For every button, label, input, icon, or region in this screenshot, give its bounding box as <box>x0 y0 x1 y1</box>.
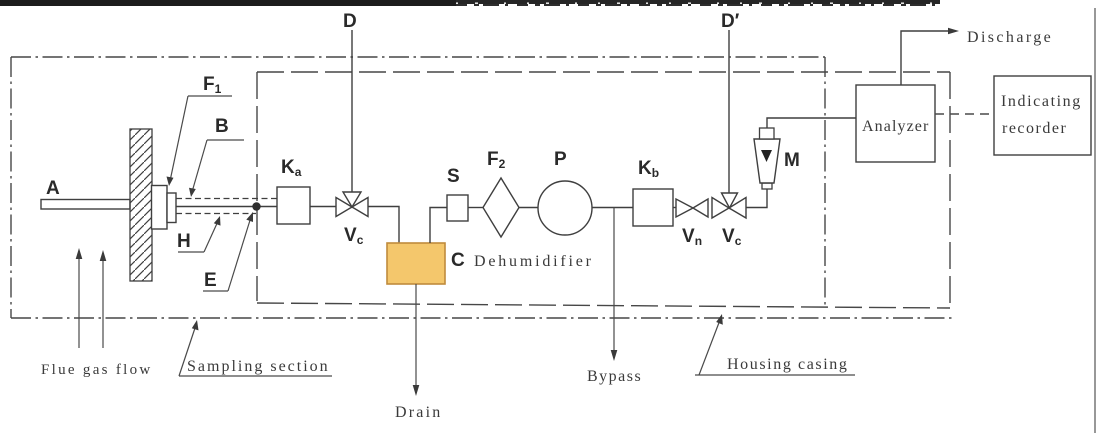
svg-text:E: E <box>204 270 217 291</box>
scan artifact: page right edge line <box>1094 8 1096 433</box>
valve Vc (3-way with actuator) <box>336 192 368 217</box>
svg-text:Analyzer: Analyzer <box>862 118 929 135</box>
wire Ka to valve Vc <box>310 206 336 208</box>
flange F1 <box>152 186 168 230</box>
svg-text:Housing casing: Housing casing <box>727 356 849 373</box>
analyzer box <box>856 85 935 162</box>
bypass line with arrow <box>613 208 615 354</box>
svg-text:Sampling section: Sampling section <box>187 358 330 375</box>
dehumidifier C (orange box) <box>387 243 445 284</box>
svg-text:Discharge: Discharge <box>967 29 1053 46</box>
label F1 with leader <box>167 74 233 186</box>
svg-text:D′: D′ <box>721 11 740 32</box>
node E (junction dot) <box>252 202 260 210</box>
discharge line with arrow <box>901 31 951 85</box>
indicating recorder box <box>994 76 1091 155</box>
svg-text:C: C <box>451 250 465 271</box>
svg-text:B: B <box>215 116 229 137</box>
wire valve Vc to dehumidifier C <box>368 207 399 244</box>
label B with leader <box>189 116 244 197</box>
label: Sampling section with leader arrow <box>179 320 332 376</box>
line to D <box>351 30 353 192</box>
label H with leader <box>177 216 221 252</box>
svg-text:Drain: Drain <box>395 404 442 421</box>
pump P (circle) <box>538 181 592 235</box>
svg-text:Bypass: Bypass <box>587 368 642 385</box>
outer boundary (dash-dot): top <box>11 56 825 58</box>
svg-text:S: S <box>447 166 460 187</box>
wire P to Kb with bypass tee <box>592 207 633 209</box>
housing casing: bottom <box>257 303 950 308</box>
valve Vn <box>676 199 708 217</box>
filter F2 (diamond) <box>483 178 519 237</box>
dashed signal line analyzer to recorder <box>935 113 994 115</box>
svg-text:A: A <box>46 178 60 199</box>
wire Kb to Vn <box>673 207 677 209</box>
duct wall (hatched) <box>130 129 152 281</box>
label Housing casing with leader arrow <box>695 314 855 375</box>
probe A tube <box>41 200 130 210</box>
svg-text:H: H <box>177 231 191 252</box>
wire F2 to P <box>519 207 538 209</box>
flow meter M (rotameter) <box>754 128 780 189</box>
line to D' <box>728 30 730 193</box>
outer boundary: bottom <box>11 317 955 319</box>
svg-text:P: P <box>554 149 567 170</box>
housing casing: right <box>949 72 951 308</box>
wire M to analyzer <box>767 118 856 128</box>
scan artifact: dark strip at top of page <box>0 0 940 4</box>
housing casing boundary (dashed): top <box>257 71 950 73</box>
wire C to S <box>430 208 447 244</box>
svg-text:Flue gas flow: Flue gas flow <box>41 362 153 378</box>
wire Vc' to flow meter M <box>746 189 767 208</box>
svg-text:Indicating: Indicating <box>1001 93 1082 110</box>
flue gas flow arrows <box>76 248 107 348</box>
svg-text:Dehumidifier: Dehumidifier <box>474 253 594 270</box>
outer boundary: inner vertical divider <box>824 57 826 305</box>
svg-text:recorder: recorder <box>1002 120 1067 137</box>
wire S to F2 <box>468 207 483 209</box>
drain line with arrow <box>415 284 417 388</box>
housing casing: left <box>256 72 258 301</box>
box Kb <box>633 189 673 226</box>
valve Vc' (3-way with actuator) <box>712 193 746 218</box>
sampling pipe with heated line (dashed) <box>176 198 277 200</box>
svg-text:D: D <box>343 11 357 32</box>
outer boundary: left <box>10 57 12 318</box>
svg-text:M: M <box>784 150 800 171</box>
box S <box>447 195 468 221</box>
label E with leader <box>203 212 253 291</box>
box Ka <box>277 187 310 224</box>
